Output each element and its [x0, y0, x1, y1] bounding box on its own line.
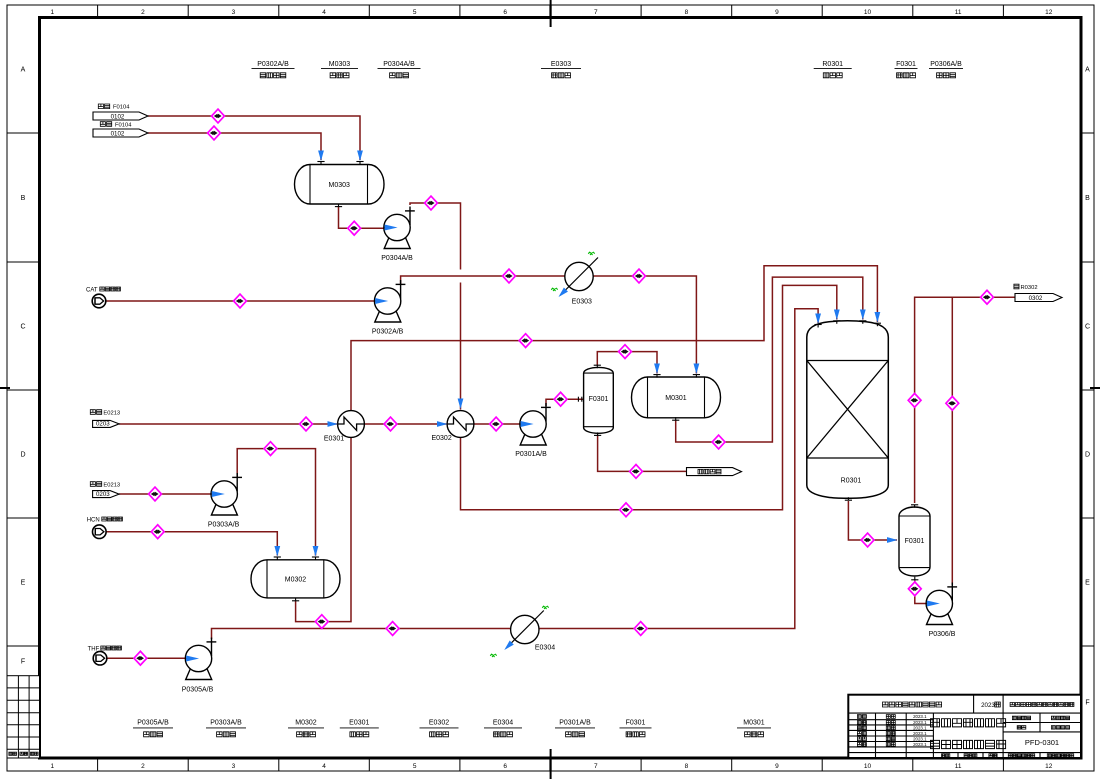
svg-text:B: B — [21, 195, 26, 202]
svg-text:F: F — [21, 659, 25, 666]
flow arrow into R0301 nozzle 4 — [875, 312, 881, 323]
svg-text:P0304A/B: P0304A/B — [383, 61, 415, 68]
svg-text:P0306/B: P0306/B — [929, 631, 956, 638]
svg-text:F0104: F0104 — [115, 122, 132, 128]
svg-text:11: 11 — [955, 763, 962, 770]
outlet flag 0302 — [1014, 284, 1019, 289]
wire M0302 outlet to E0301 bottom — [296, 437, 351, 621]
wire P0304A/B discharge to E0302 top — [410, 203, 461, 270]
nozzles R0301 — [815, 325, 822, 328]
svg-text:P0301A/B: P0301A/B — [515, 451, 547, 458]
heat exchanger E0303 — [560, 258, 598, 296]
svg-text:M0302: M0302 — [295, 720, 317, 727]
inlet flag 0203 a — [90, 410, 101, 415]
flow arrow into M0301 left nozzle — [654, 364, 660, 375]
svg-text:F0301: F0301 — [905, 538, 925, 545]
flow arrow into E0301 — [328, 421, 339, 427]
valve diamond: F0301 overhead line — [619, 345, 632, 359]
valve diamond: feed2 line — [208, 126, 221, 140]
svg-text:4: 4 — [322, 9, 326, 16]
svg-text:1: 1 — [50, 763, 54, 770]
valve diamond: P0306 discharge riser — [946, 396, 959, 410]
wire feed2 0102 to M0303 — [148, 133, 321, 160]
wire P0303A/B discharge to M0302 — [237, 449, 315, 556]
svg-text:P0305A/B: P0305A/B — [182, 687, 214, 694]
svg-text:M0301: M0301 — [743, 720, 765, 727]
svg-text:F0301: F0301 — [589, 396, 609, 403]
svg-text:1: 1 — [50, 9, 54, 16]
valve diamond: HCN line — [151, 525, 164, 539]
svg-text:P0301A/B: P0301A/B — [559, 720, 591, 727]
flow arrow into E0302 top — [458, 399, 464, 410]
svg-text:5: 5 — [413, 763, 417, 770]
svg-text:P0305A/B: P0305A/B — [137, 720, 169, 727]
svg-text:2023.1: 2023.1 — [913, 737, 927, 742]
flow arrow into M0303 right nozzle — [357, 151, 363, 162]
valve diamond: E0301 outlet — [384, 417, 397, 431]
svg-text:2023.1: 2023.1 — [913, 714, 927, 719]
svg-text:2023.1: 2023.1 — [913, 742, 927, 747]
svg-text:P0302A/B: P0302A/B — [372, 329, 404, 336]
wire M0301 bottom to R0301 nozzle 3 — [676, 277, 863, 442]
svg-text:5: 5 — [413, 9, 417, 16]
valve diamond: feed1 line — [212, 109, 225, 123]
svg-text:10: 10 — [864, 9, 872, 16]
svg-text:4: 4 — [322, 763, 326, 770]
svg-text:9: 9 — [775, 763, 779, 770]
svg-text:C: C — [20, 324, 25, 331]
svg-text:2023.1: 2023.1 — [913, 731, 927, 736]
svg-text:R0301: R0301 — [822, 61, 843, 68]
svg-text:F0104: F0104 — [113, 105, 130, 111]
svg-text:2023.1: 2023.1 — [913, 720, 927, 725]
heat exchanger E0301 — [338, 411, 365, 438]
svg-text:D: D — [1085, 452, 1090, 459]
pump P0304A/B — [384, 207, 415, 249]
svg-text:3: 3 — [232, 9, 236, 16]
valve diamond: 0203b line — [149, 487, 162, 501]
wire E0301 top to R0301 nozzle 4 — [351, 266, 877, 411]
svg-text:3: 3 — [232, 763, 236, 770]
svg-text:E0301: E0301 — [349, 720, 369, 727]
svg-text:0203: 0203 — [96, 421, 110, 428]
valve diamond: M0302 outlet — [315, 615, 328, 629]
svg-text:E0303: E0303 — [551, 61, 571, 68]
svg-text:12: 12 — [1045, 9, 1053, 16]
vessel M0301 — [632, 377, 721, 418]
svg-text:A: A — [1085, 67, 1090, 74]
valve diamond: P0303 discharge — [264, 442, 277, 456]
flow arrow into M0302 right nozzle — [313, 546, 319, 557]
svg-text:11: 11 — [955, 9, 962, 16]
svg-text:E0302: E0302 — [431, 435, 451, 442]
svg-text:P0303A/B: P0303A/B — [208, 522, 240, 529]
heat exchanger E0302 — [447, 411, 474, 438]
svg-text:P0302A/B: P0302A/B — [257, 61, 289, 68]
nozzles F0301 — [594, 365, 601, 368]
flow arrow into R0301 nozzle 1 — [815, 314, 821, 325]
wire 0203b feed to P0303A/B — [119, 493, 211, 495]
wire P0302A/B discharge to E0303 — [401, 276, 565, 284]
valve diamond: F0301 bottom line — [630, 465, 643, 479]
flow arrow into F0301b inlet — [887, 537, 898, 543]
revision table (bottom-left) — [7, 676, 40, 758]
wire F0301 bottom to waste flag — [598, 435, 687, 472]
flow arrow into M0301 right nozzle — [694, 364, 700, 375]
svg-text:F: F — [1085, 700, 1089, 707]
valve diamond: CAT line — [234, 294, 247, 308]
wire E0303 to M0301 nozzle — [593, 276, 696, 374]
wire CAT to P0302A/B suction — [106, 300, 375, 302]
vessel M0302 — [251, 560, 340, 598]
flow arrow into E0302 — [437, 421, 448, 427]
wire P0305A/B discharge to E0304 — [212, 629, 511, 640]
svg-text:A: A — [21, 67, 26, 74]
svg-text:C: C — [1085, 324, 1090, 331]
svg-text:2: 2 — [141, 763, 145, 770]
svg-text:7: 7 — [594, 9, 598, 16]
svg-text:0203: 0203 — [96, 491, 110, 498]
flow arrow into M0303 left nozzle — [318, 151, 324, 162]
pump P0305A/B — [185, 638, 216, 680]
flow arrow into R0301 nozzle 3 — [860, 310, 866, 321]
heat exchanger E0304 — [506, 611, 544, 649]
valve diamond: 0203a line — [300, 417, 313, 431]
svg-text:0302: 0302 — [1029, 295, 1043, 302]
inlet flag 0102 b — [100, 122, 111, 127]
svg-text:9: 9 — [775, 9, 779, 16]
svg-text:D: D — [20, 452, 25, 459]
pump P0303A/B — [211, 473, 242, 515]
pump P0306/B — [926, 583, 957, 625]
svg-text:2023: 2023 — [981, 702, 995, 709]
svg-text:E: E — [1085, 580, 1090, 587]
valve diamond: E0303 inlet line — [503, 269, 516, 283]
valve diamond: THF line — [134, 651, 147, 665]
wire E0301 to E0302 — [364, 423, 447, 425]
waste outlet flag — [687, 468, 742, 476]
svg-text:6: 6 — [503, 9, 507, 16]
svg-text:R0302: R0302 — [1021, 285, 1038, 291]
valve diamond: E0301 top line — [519, 334, 532, 348]
wire F0301b bottom to P0306/B — [915, 581, 927, 604]
flow arrow into R0301 nozzle 2 — [834, 310, 840, 321]
inlet flag 0203 b — [90, 482, 101, 487]
valve diamond: R0301 bottom line — [861, 533, 874, 547]
svg-text:PFD-0301: PFD-0301 — [1025, 738, 1059, 747]
inlet flag 0102 a — [98, 104, 109, 109]
svg-text:E0303: E0303 — [572, 299, 592, 306]
flow arrow into M0302 left nozzle — [274, 546, 280, 557]
valve diamond: M0303 outlet — [348, 221, 361, 235]
wire 0203a feed to E0301 — [119, 423, 337, 425]
svg-text:F0301: F0301 — [896, 61, 916, 68]
svg-text:M0303: M0303 — [329, 182, 351, 189]
nozzles M0303 — [317, 162, 324, 165]
svg-text:E0213: E0213 — [103, 410, 120, 416]
valve diamond: E0304 outlet — [634, 622, 647, 636]
svg-text:E0304: E0304 — [535, 645, 555, 652]
svg-text:0102: 0102 — [111, 130, 125, 137]
wire feed1 0102 to M0303 — [148, 116, 360, 160]
svg-text:8: 8 — [685, 763, 689, 770]
svg-text:8: 8 — [685, 9, 689, 16]
svg-text:R0301: R0301 — [841, 478, 862, 485]
svg-text:P0303A/B: P0303A/B — [210, 720, 242, 727]
svg-text:P0306A/B: P0306A/B — [930, 61, 962, 68]
valve diamond: P0304 discharge — [425, 196, 438, 210]
wire HCN to M0302 — [106, 532, 277, 556]
wire E0302 to P0301A/B — [474, 423, 520, 425]
title block — [848, 695, 1081, 758]
valve diamond: 0302 outlet line — [981, 290, 994, 304]
svg-text:E: E — [21, 580, 26, 587]
valve diamond: M0301 bottom line — [712, 435, 725, 449]
svg-text:HCN: HCN — [87, 518, 100, 524]
svg-text:E0304: E0304 — [493, 720, 513, 727]
wire E0304 to R0301 nozzle 1 — [539, 309, 818, 629]
wire P0301A/B discharge to F0301 — [546, 399, 583, 406]
valve diamond: P0305 discharge line — [386, 622, 399, 636]
valve diamond: E0302 outlet — [490, 417, 503, 431]
svg-text:6: 6 — [503, 763, 507, 770]
svg-text:E0213: E0213 — [103, 482, 120, 488]
svg-text:CAT: CAT — [86, 288, 98, 294]
svg-text:2023.1: 2023.1 — [913, 726, 927, 731]
nozzles M0302 — [274, 557, 281, 560]
pump P0301A/B — [520, 403, 551, 445]
nozzles F0301b — [911, 505, 918, 508]
svg-text:M0302: M0302 — [285, 576, 307, 583]
vessel F0301 (flash drum) — [584, 367, 614, 433]
wire M0303 outlet to P0304A/B — [339, 206, 385, 228]
svg-text:0102: 0102 — [111, 113, 125, 120]
svg-text:7: 7 — [594, 763, 598, 770]
svg-text:P0304A/B: P0304A/B — [381, 255, 413, 262]
reactor R0301 — [807, 321, 889, 498]
wire THF to P0305A/B suction — [107, 657, 186, 659]
valve diamond: F0301b bottom — [908, 582, 921, 596]
svg-text:F0301: F0301 — [626, 720, 646, 727]
valve diamond: E0302 bottom line — [620, 503, 633, 517]
vessel M0303 — [295, 165, 385, 205]
svg-text:E0301: E0301 — [324, 436, 344, 443]
svg-text:2: 2 — [141, 9, 145, 16]
wire E0302 bottom to R0301 nozzle 2 — [461, 285, 837, 509]
valve diamond: E0303 outlet line — [633, 269, 646, 283]
svg-text:M0301: M0301 — [665, 395, 687, 402]
pump P0302A/B — [374, 280, 405, 322]
wire R0301 bottom to F0301b — [848, 501, 897, 540]
valve diamond: F0301b overhead riser — [908, 393, 921, 407]
svg-text:B: B — [1085, 195, 1090, 202]
valve diamond: P0301 discharge — [554, 392, 567, 406]
svg-text:E0302: E0302 — [429, 720, 449, 727]
svg-text:12: 12 — [1045, 763, 1053, 770]
vessel F0301b (separator) — [899, 507, 930, 576]
nozzles M0301 — [653, 375, 660, 378]
svg-text:10: 10 — [864, 763, 872, 770]
wire F0301b top to 0302 outlet flag — [915, 297, 1015, 503]
wire F0301 top to M0301 nozzle — [597, 352, 657, 374]
wire P0306/B discharge riser — [951, 297, 953, 585]
svg-text:M0303: M0303 — [329, 61, 351, 68]
